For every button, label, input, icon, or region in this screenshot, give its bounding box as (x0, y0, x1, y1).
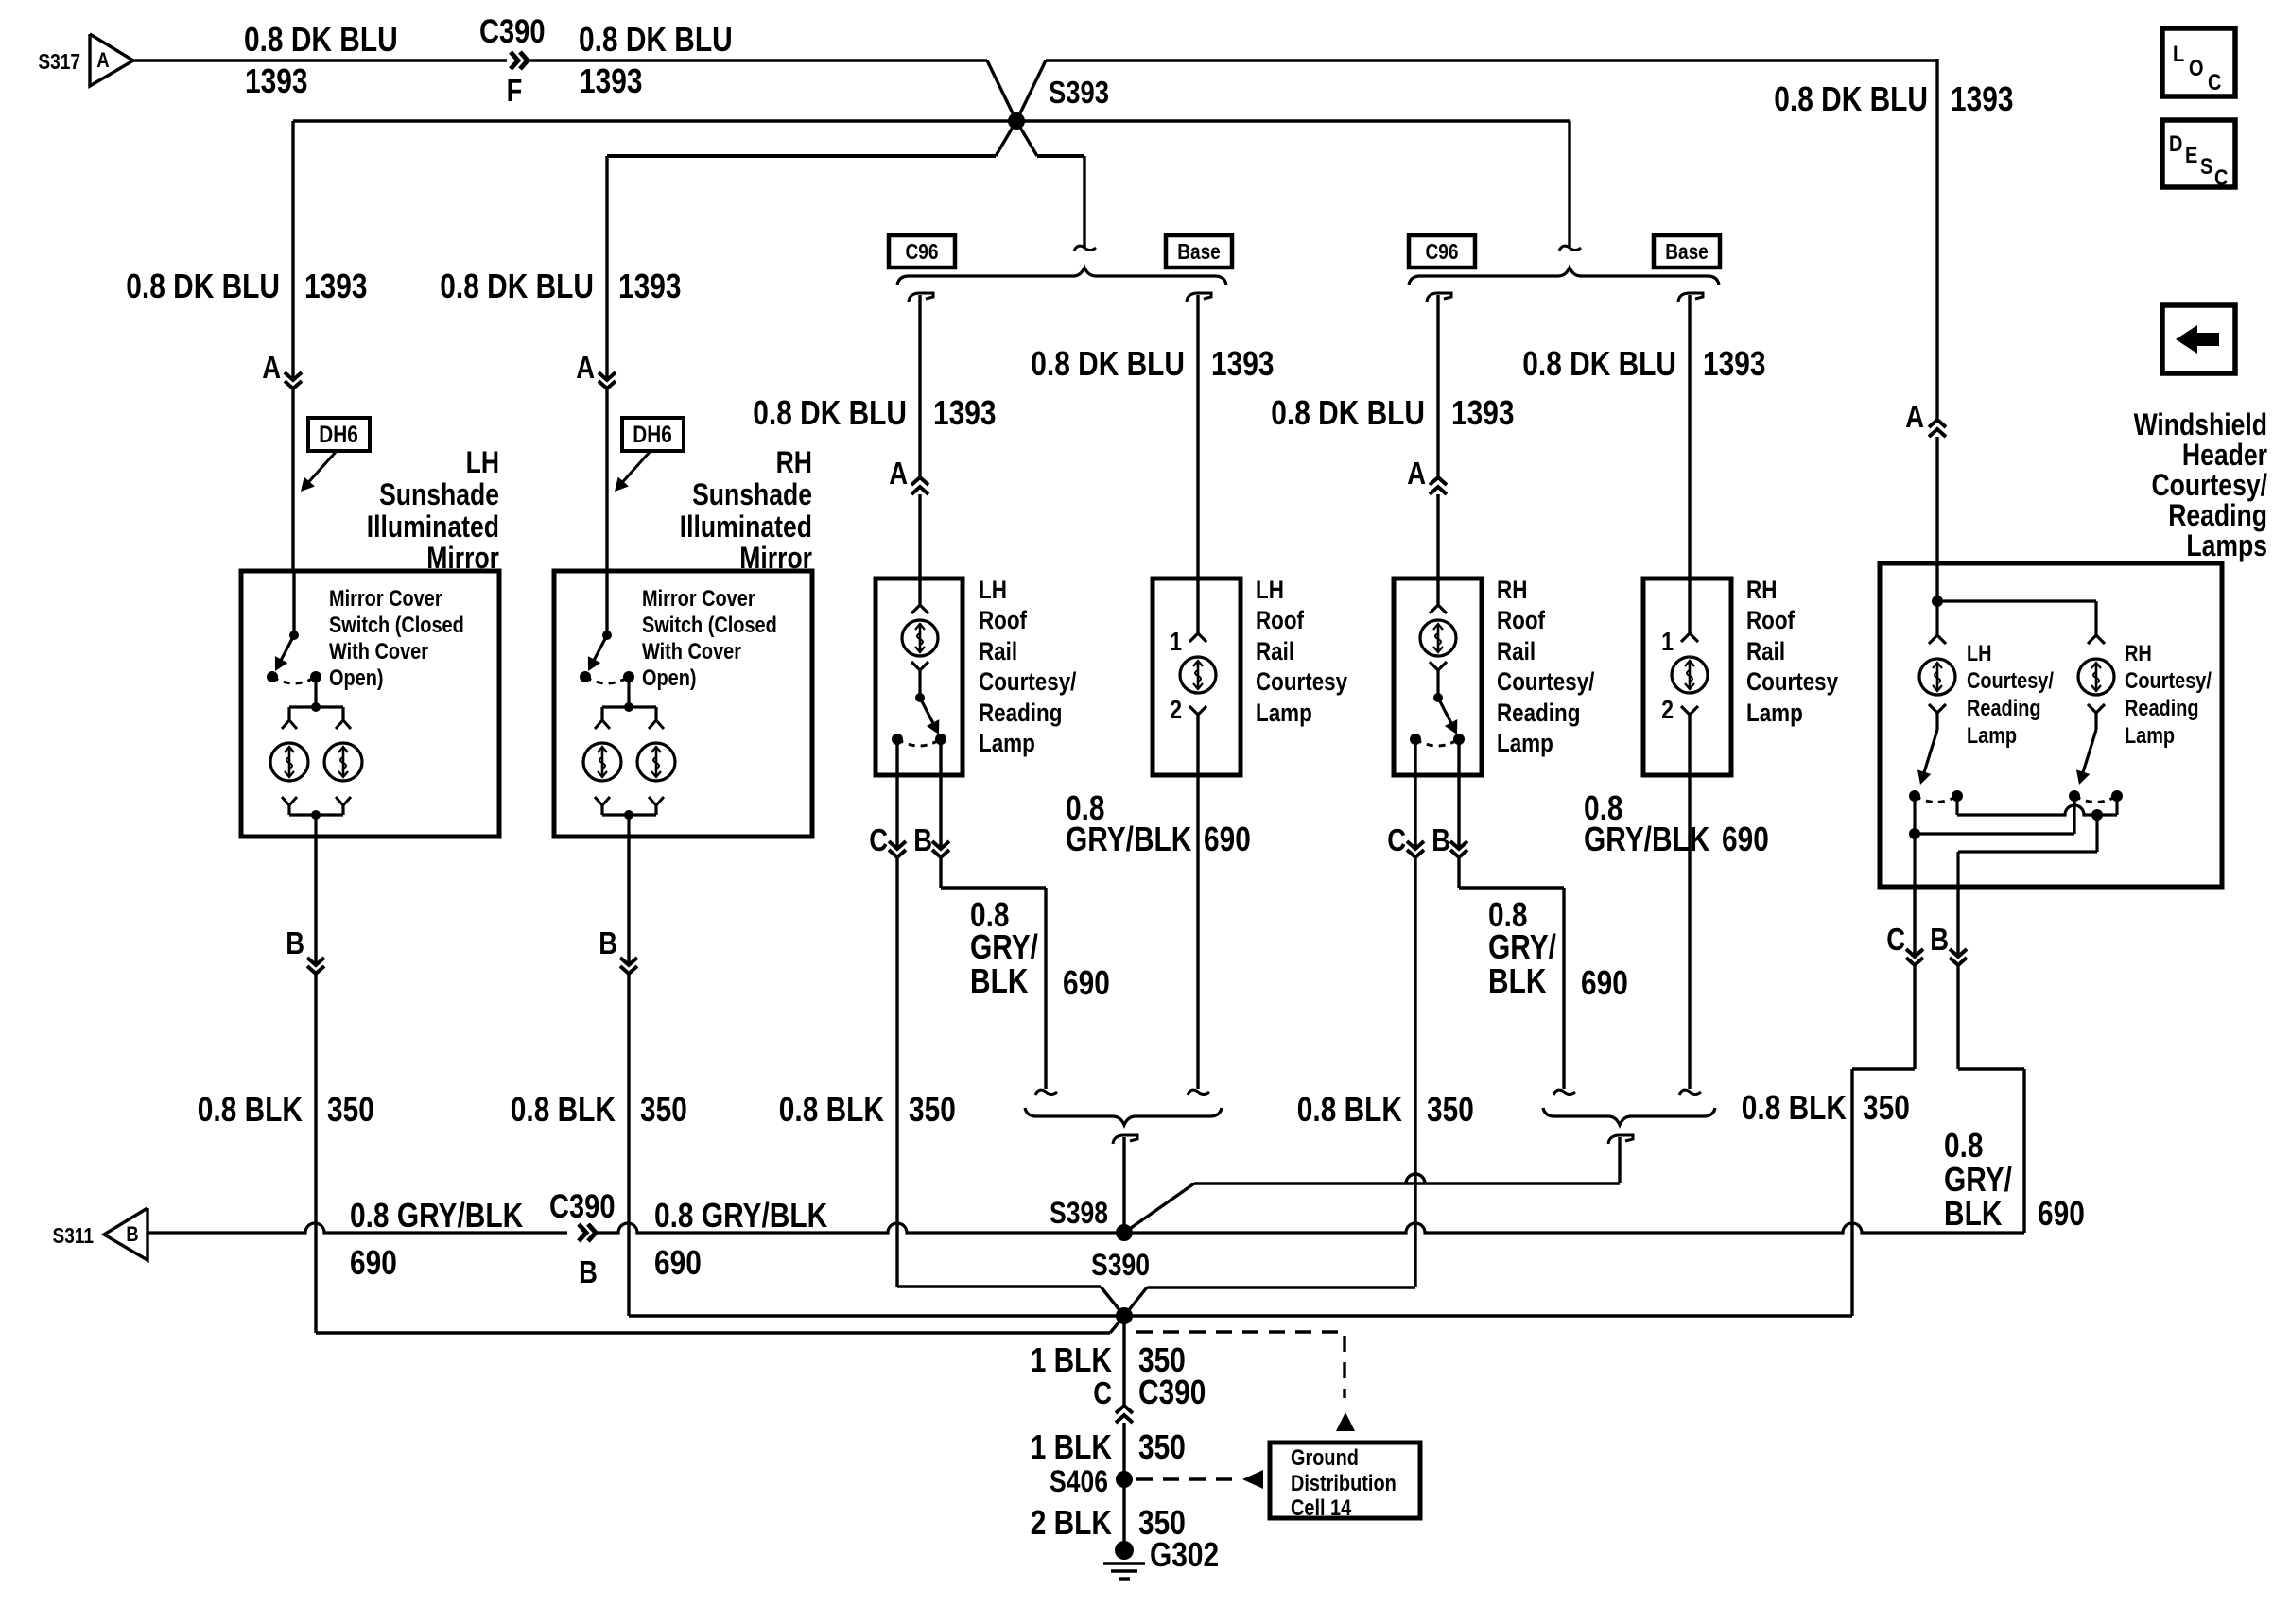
svg-text:Base: Base (1177, 239, 1221, 264)
RH roof rail reading lamp bulb and switch (1410, 579, 1465, 746)
svg-text:Lamp: Lamp (2125, 723, 2175, 749)
svg-text:LH: LH (979, 576, 1007, 604)
svg-text:A: A (96, 48, 109, 72)
svg-text:350: 350 (1427, 1090, 1474, 1129)
LH courtesy/reading lamp (windshield header) (1909, 601, 1963, 803)
connector C390 pin C (ground wire) (1093, 1373, 1206, 1423)
LH roof rail courtesy lamp box (Base) (1153, 579, 1241, 775)
label Mirror Cover Switch (RH) (642, 586, 777, 691)
svg-text:0.8 DK BLU: 0.8 DK BLU (753, 393, 907, 432)
svg-text:A: A (1407, 456, 1426, 491)
svg-text:0.8 DK BLU: 0.8 DK BLU (1031, 344, 1185, 383)
options brace (RH roof rail lamps) (1409, 268, 1719, 285)
svg-text:O: O (2189, 56, 2204, 81)
svg-text:1: 1 (1170, 627, 1182, 656)
svg-text:Header: Header (2182, 438, 2267, 472)
svg-text:2: 2 (1661, 695, 1674, 724)
svg-text:Courtesy/: Courtesy/ (2152, 468, 2268, 502)
svg-text:690: 690 (1581, 963, 1628, 1002)
svg-text:Rail: Rail (979, 637, 1017, 665)
svg-text:0.8 DK BLU: 0.8 DK BLU (1522, 344, 1676, 383)
svg-text:LH: LH (1967, 641, 1992, 666)
label RH Sunshade Illuminated Mirror (680, 445, 812, 575)
reference box DESC (2162, 120, 2235, 191)
wire (RH merge to splice S398) (1124, 1174, 1620, 1233)
svg-text:S398: S398 (1050, 1196, 1108, 1230)
connector C (RH roof rail reading lamp) (1387, 739, 1424, 857)
svg-text:350: 350 (1863, 1088, 1910, 1127)
RH roof rail courtesy lamp bulb (pins 1,2) (1661, 579, 1708, 775)
wire 0.8 GRY/BLK 690 (LH reading lamp B to options merge) (941, 857, 1110, 1095)
options merge brace (RH lamps to S398) (1543, 1108, 1715, 1183)
connector option tag C96 (RH) (1409, 235, 1475, 268)
svg-text:Roof: Roof (1256, 606, 1305, 634)
wire 0.8 DK BLU 1393 (S317 to C390) (133, 20, 507, 100)
connector tag DH6 (RH) (615, 418, 684, 492)
svg-text:Distribution: Distribution (1291, 1471, 1397, 1496)
svg-text:S311: S311 (53, 1223, 95, 1248)
svg-text:1 BLK: 1 BLK (1031, 1340, 1112, 1379)
svg-text:DH6: DH6 (633, 422, 672, 448)
dashed reference (S390 to Ground Distribution) (1136, 1332, 1355, 1431)
mirror cover switch (LH) (267, 571, 321, 707)
svg-text:Courtesy/: Courtesy/ (979, 667, 1077, 696)
svg-text:Open): Open) (329, 665, 384, 691)
svg-text:Courtesy/: Courtesy/ (1967, 668, 2054, 694)
svg-text:Lamps: Lamps (2186, 528, 2267, 562)
svg-text:A: A (1905, 399, 1924, 434)
svg-text:LH: LH (1256, 576, 1284, 604)
wire 0.8 GRY/BLK 690 (RH courtesy lamp to options merge) (1584, 775, 1769, 1095)
options brace (LH roof rail lamps) (897, 268, 1226, 285)
svg-text:BLK: BLK (970, 961, 1028, 1000)
connector C (windshield header lamps) (1886, 887, 1923, 965)
svg-text:Courtesy/: Courtesy/ (2125, 668, 2212, 694)
wire 0.8 GRY/BLK 690 (RH reading lamp B to options merge) (1459, 857, 1628, 1095)
RH courtesy/reading lamp (windshield header) (2069, 601, 2123, 803)
svg-text:RH: RH (1497, 576, 1527, 604)
svg-text:B: B (599, 925, 617, 960)
connector tag DH6 (LH) (301, 418, 370, 492)
mirror lamps (LH, parallel pair) (270, 702, 362, 837)
svg-text:GRY/BLK: GRY/BLK (1584, 820, 1709, 858)
wire 0.8 BLK 350 (LH mirror to S390) (198, 974, 1124, 1333)
svg-text:690: 690 (2038, 1194, 2085, 1233)
wire 0.8 DK BLU 1393 (S393 to LH sunshade mirror) (126, 121, 1016, 380)
svg-text:C: C (1886, 922, 1905, 957)
wire 0.8 DK BLU 1393 (C390 to S393) (524, 20, 987, 100)
wire 1 BLK 350 (C390 to S406) (1031, 1423, 1186, 1479)
LH sunshade illuminated mirror box (241, 571, 499, 837)
svg-text:Lamp: Lamp (1497, 729, 1553, 757)
off-page connector S317 (pin A) (38, 34, 133, 86)
connector B (RH sunshade mirror) (599, 837, 637, 974)
windshield internal wiring (contact tie lines) (1909, 796, 2117, 887)
svg-text:D: D (2169, 131, 2182, 157)
wire 0.8 GRY/BLK 690 (LH courtesy lamp to options merge) (1066, 775, 1251, 1095)
svg-text:B: B (1930, 922, 1949, 957)
svg-text:C96: C96 (1426, 239, 1459, 264)
svg-text:Open): Open) (642, 665, 697, 691)
svg-text:DH6: DH6 (319, 422, 358, 448)
svg-text:2 BLK: 2 BLK (1031, 1503, 1112, 1542)
svg-text:Illuminated: Illuminated (680, 510, 812, 544)
svg-text:C: C (1387, 822, 1406, 857)
svg-text:RH: RH (2125, 641, 2152, 666)
svg-text:1393: 1393 (304, 267, 368, 305)
svg-text:1393: 1393 (1951, 79, 2014, 118)
svg-text:LH: LH (466, 445, 499, 479)
svg-text:1 BLK: 1 BLK (1031, 1427, 1112, 1466)
off-page connector S311 (pin B) (53, 1208, 148, 1260)
svg-text:Rail: Rail (1256, 637, 1294, 665)
svg-text:S390: S390 (1091, 1248, 1150, 1282)
svg-text:C390: C390 (549, 1188, 616, 1225)
svg-text:Reading: Reading (979, 699, 1062, 727)
wire 0.8 GRY/BLK 690 (S311 to C390) (147, 1196, 567, 1282)
svg-text:C390: C390 (1138, 1373, 1206, 1411)
svg-text:350: 350 (640, 1090, 687, 1129)
svg-text:1393: 1393 (1211, 344, 1275, 383)
label LH Courtesy/ Reading Lamp (windshield) (1967, 641, 2054, 749)
windshield header courtesy/reading lamps box (1880, 563, 2222, 887)
svg-text:0.8 GRY/BLK: 0.8 GRY/BLK (654, 1196, 827, 1235)
svg-text:B: B (126, 1222, 138, 1246)
svg-text:0.8 DK BLU: 0.8 DK BLU (579, 20, 733, 59)
label Windshield Header Courtesy/ Reading Lamps (2134, 407, 2267, 562)
wire 0.8 BLK 350 (windshield C to S390) (1124, 965, 1915, 1316)
svg-text:0.8 BLK: 0.8 BLK (1742, 1088, 1847, 1127)
connector A (RH sunshade mirror) (576, 350, 616, 571)
wire 2 BLK 350 (S406 to G302) (1031, 1479, 1186, 1546)
svg-text:690: 690 (1063, 963, 1110, 1002)
splice S390 (1091, 1248, 1150, 1324)
svg-text:C: C (2214, 165, 2228, 191)
svg-text:Sunshade: Sunshade (692, 477, 812, 511)
reference box LOC (2162, 28, 2235, 96)
splice S398 (1050, 1196, 1133, 1241)
svg-text:Roof: Roof (979, 606, 1028, 634)
svg-text:1: 1 (1661, 627, 1674, 656)
svg-text:2: 2 (1170, 695, 1182, 724)
label LH Roof Rail Courtesy Lamp (1256, 576, 1347, 727)
wire 0.8 DK BLU 1393 (Base branch to LH roof rail courtesy lamp) (1031, 293, 1274, 579)
svg-text:0.8: 0.8 (1944, 1126, 1984, 1165)
wire 0.8 BLK 350 (RH mirror to S390) (511, 974, 1124, 1316)
svg-text:C: C (1093, 1375, 1112, 1410)
svg-text:S393: S393 (1049, 75, 1109, 110)
splice S393 (987, 60, 1109, 156)
svg-text:1393: 1393 (933, 393, 997, 432)
connector option tag Base (LH) (1166, 235, 1232, 268)
svg-text:Cell 14: Cell 14 (1291, 1495, 1352, 1521)
mirror lamps (RH, parallel pair) (583, 702, 675, 837)
svg-text:Courtesy: Courtesy (1256, 667, 1347, 696)
RH roof rail courtesy/reading lamp box (1394, 579, 1482, 775)
svg-text:0.8 DK BLU: 0.8 DK BLU (440, 267, 594, 305)
svg-text:1393: 1393 (618, 267, 682, 305)
svg-text:C390: C390 (479, 13, 546, 50)
label Mirror Cover Switch (LH) (329, 586, 464, 691)
svg-text:1393: 1393 (580, 61, 643, 100)
svg-text:Lamp: Lamp (1746, 699, 1803, 727)
svg-text:Ground: Ground (1291, 1445, 1359, 1471)
svg-text:S317: S317 (38, 49, 80, 74)
reference box Ground Distribution Cell 14 (1270, 1443, 1420, 1521)
svg-text:350: 350 (909, 1090, 956, 1129)
svg-text:690: 690 (1204, 820, 1251, 858)
svg-text:Lamp: Lamp (1256, 699, 1312, 727)
LH roof rail courtesy lamp bulb (pins 1,2) (1170, 579, 1216, 775)
wire 0.8 BLK 350 (LH reading lamp C to S390) (779, 857, 1124, 1316)
svg-text:GRY/: GRY/ (1488, 927, 1556, 966)
connector A (LH roof rail reading lamp) (889, 456, 928, 579)
svg-text:BLK: BLK (1488, 961, 1546, 1000)
svg-text:S: S (2200, 154, 2212, 180)
svg-text:Lamp: Lamp (979, 729, 1035, 757)
svg-text:0.8 DK BLU: 0.8 DK BLU (1774, 79, 1928, 118)
connector C390 pin F (top) (479, 13, 546, 108)
svg-text:A: A (262, 350, 281, 385)
svg-text:Roof: Roof (1497, 606, 1546, 634)
svg-text:Courtesy: Courtesy (1746, 667, 1838, 696)
label LH Roof Rail Courtesy/ Reading Lamp (979, 576, 1077, 757)
svg-text:Courtesy/: Courtesy/ (1497, 667, 1595, 696)
connector option tag C96 (LH) (889, 235, 955, 268)
svg-text:Reading: Reading (1967, 696, 2041, 721)
wire 0.8 GRY/BLK 690 (C390 to S398) (596, 1196, 1124, 1282)
connector B (LH roof rail reading lamp) (913, 739, 949, 857)
connector B (LH sunshade mirror) (286, 837, 324, 974)
svg-text:With Cover: With Cover (329, 639, 428, 665)
label LH Sunshade Illuminated Mirror (367, 445, 499, 575)
label RH Roof Rail Courtesy Lamp (1746, 576, 1838, 727)
svg-text:Rail: Rail (1497, 637, 1536, 665)
wire 0.8 DK BLU 1393 (S393 to RH sunshade mirror) (440, 156, 996, 380)
svg-text:G302: G302 (1150, 1535, 1219, 1574)
svg-text:690: 690 (654, 1243, 702, 1282)
ground G302 (1103, 1535, 1219, 1579)
mirror cover switch (RH) (580, 571, 634, 707)
wire 0.8 GRY/BLK 690 (windshield B to ground run) (1944, 965, 2085, 1233)
svg-text:Switch (Closed: Switch (Closed (642, 613, 777, 638)
svg-text:Reading: Reading (2168, 498, 2267, 532)
LH roof rail reading lamp bulb and switch (892, 579, 946, 746)
splice S406 (1050, 1464, 1133, 1498)
svg-text:RH: RH (1746, 576, 1777, 604)
svg-text:690: 690 (1722, 820, 1769, 858)
svg-text:0.8 BLK: 0.8 BLK (1297, 1090, 1402, 1129)
svg-text:350: 350 (1138, 1427, 1186, 1466)
label RH Courtesy/ Reading Lamp (windshield) (2125, 641, 2212, 749)
svg-text:0.8 BLK: 0.8 BLK (511, 1090, 616, 1129)
svg-text:Windshield: Windshield (2134, 407, 2267, 441)
LH roof rail courtesy/reading lamp box (876, 579, 963, 775)
svg-text:E: E (2185, 143, 2197, 168)
svg-text:GRY/: GRY/ (1944, 1160, 2012, 1199)
svg-text:With Cover: With Cover (642, 639, 741, 665)
svg-text:Rail: Rail (1746, 637, 1785, 665)
svg-text:Base: Base (1665, 239, 1709, 264)
svg-text:C: C (869, 822, 888, 857)
svg-text:GRY/BLK: GRY/BLK (1066, 820, 1191, 858)
svg-text:1393: 1393 (1451, 393, 1515, 432)
svg-text:Lamp: Lamp (1967, 723, 2017, 749)
svg-text:350: 350 (327, 1090, 374, 1129)
svg-text:0.8 DK BLU: 0.8 DK BLU (126, 267, 280, 305)
svg-text:Roof: Roof (1746, 606, 1796, 634)
options merge brace (LH lamps to S398) (1025, 1108, 1222, 1233)
wire 0.8 DK BLU 1393 (C96 branch to LH roof rail reading lamp) (753, 293, 996, 477)
label RH Roof Rail Courtesy/ Reading Lamp (1497, 576, 1595, 757)
wire 0.8 DK BLU 1393 (S393 to windshield header lamps) (1046, 59, 2014, 420)
connector C390 pin B (ground run) (549, 1188, 616, 1289)
connector option tag Base (RH) (1654, 235, 1720, 268)
svg-text:B: B (913, 822, 932, 857)
wire (S393 to RH roof rail lamp options brace) (1016, 121, 1581, 251)
svg-text:Sunshade: Sunshade (379, 477, 499, 511)
svg-text:0.8 BLK: 0.8 BLK (779, 1090, 884, 1129)
svg-text:C: C (2208, 70, 2221, 95)
svg-text:Reading: Reading (2125, 696, 2199, 721)
windshield feed junction (1932, 563, 2096, 607)
connector A (RH roof rail reading lamp) (1407, 456, 1447, 579)
svg-text:BLK: BLK (1944, 1194, 2002, 1233)
svg-text:0.8 DK BLU: 0.8 DK BLU (244, 20, 398, 59)
svg-text:1393: 1393 (1703, 344, 1766, 383)
svg-text:B: B (286, 925, 304, 960)
svg-text:Mirror Cover: Mirror Cover (642, 586, 755, 612)
svg-text:0.8 BLK: 0.8 BLK (198, 1090, 303, 1129)
svg-text:F: F (507, 73, 523, 108)
connector B (windshield header lamps) (1930, 887, 1967, 965)
svg-text:S406: S406 (1050, 1464, 1108, 1498)
wire 0.8 DK BLU 1393 (C96 branch to RH roof rail reading lamp) (1271, 293, 1514, 477)
wire 0.8 DK BLU 1393 (Base branch to RH roof rail courtesy lamp) (1522, 293, 1765, 579)
svg-text:1393: 1393 (245, 61, 308, 100)
connector B (RH roof rail reading lamp) (1431, 739, 1467, 857)
svg-text:A: A (889, 456, 908, 491)
connector A (LH sunshade mirror) (262, 350, 302, 571)
svg-text:Mirror Cover: Mirror Cover (329, 586, 442, 612)
svg-text:B: B (1431, 822, 1450, 857)
svg-text:A: A (576, 350, 595, 385)
svg-text:0.8 DK BLU: 0.8 DK BLU (1271, 393, 1425, 432)
RH roof rail courtesy lamp box (Base) (1643, 579, 1731, 775)
svg-text:RH: RH (776, 445, 812, 479)
svg-text:Reading: Reading (1497, 699, 1580, 727)
connector A (windshield header lamps) (1905, 399, 1946, 563)
svg-text:Switch (Closed: Switch (Closed (329, 613, 464, 638)
connector C (LH roof rail reading lamp) (869, 739, 906, 857)
svg-text:690: 690 (350, 1243, 397, 1282)
wire 0.8 BLK 350 (RH reading lamp C to S390) (1124, 857, 1474, 1316)
svg-text:C96: C96 (906, 239, 939, 264)
reference box back-arrow (2162, 305, 2235, 373)
svg-text:B: B (579, 1254, 598, 1289)
wire 1 BLK 350 (S390 to C390) (1031, 1316, 1186, 1406)
RH sunshade illuminated mirror box (554, 571, 812, 837)
wire (S393 to LH roof rail lamp options brace) (1037, 156, 1096, 251)
wire 0.8 GRY/BLK 690 (S398 to windshield B wire) (1124, 1223, 2024, 1233)
svg-text:Illuminated: Illuminated (367, 510, 499, 544)
dashed reference (S406 to Ground Distribution) (1136, 1470, 1263, 1489)
svg-text:0.8 GRY/BLK: 0.8 GRY/BLK (350, 1196, 523, 1235)
svg-text:GRY/: GRY/ (970, 927, 1038, 966)
svg-text:L: L (2173, 42, 2184, 67)
